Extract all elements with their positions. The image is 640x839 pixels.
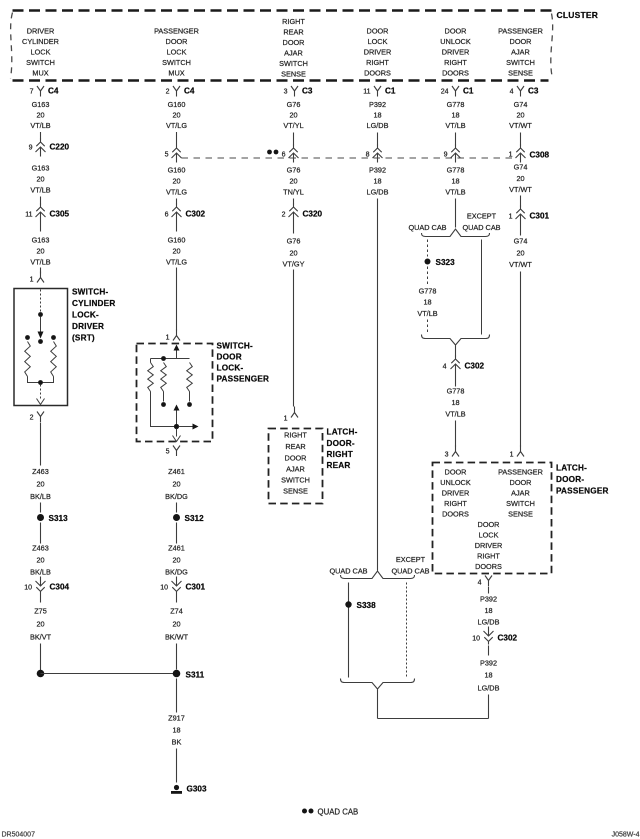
svg-text:Z74: Z74 [170, 607, 183, 616]
svg-text:DRIVER: DRIVER [364, 48, 392, 57]
svg-text:VT/LB: VT/LB [30, 186, 50, 195]
svg-text:LOCK: LOCK [31, 48, 51, 57]
svg-text:SWITCH: SWITCH [506, 58, 535, 67]
svg-text:C3: C3 [528, 87, 539, 96]
svg-text:DOORS: DOORS [364, 69, 391, 78]
svg-text:G778: G778 [447, 166, 465, 175]
svg-text:DOOR: DOOR [217, 353, 242, 362]
svg-text:BK/DG: BK/DG [165, 492, 188, 501]
svg-text:G778: G778 [447, 387, 465, 396]
svg-text:VT/WT: VT/WT [509, 260, 532, 269]
svg-text:G778: G778 [419, 287, 437, 296]
svg-text:LATCH-: LATCH- [556, 464, 587, 473]
svg-text:QUAD CAB: QUAD CAB [318, 808, 359, 817]
svg-text:VT/GY: VT/GY [283, 260, 305, 269]
svg-text:5: 5 [166, 449, 170, 456]
svg-text:VT/LB: VT/LB [445, 188, 465, 197]
svg-text:DOOR: DOOR [510, 37, 532, 46]
svg-text:LG/DB: LG/DB [367, 188, 389, 197]
svg-text:LOCK: LOCK [479, 531, 499, 540]
svg-text:SWITCH: SWITCH [279, 59, 308, 68]
svg-text:18: 18 [373, 111, 381, 120]
svg-text:TN/YL: TN/YL [283, 188, 304, 197]
svg-text:S313: S313 [49, 514, 69, 523]
svg-text:MUX: MUX [168, 69, 184, 78]
svg-text:DOORS: DOORS [475, 562, 502, 571]
svg-text:20: 20 [172, 247, 180, 256]
svg-text:DOOR: DOOR [510, 478, 532, 487]
svg-text:CYLINDER: CYLINDER [72, 299, 115, 308]
svg-text:C308: C308 [530, 151, 550, 160]
svg-text:VT/LB: VT/LB [445, 121, 465, 130]
svg-text:G163: G163 [32, 164, 50, 173]
svg-text:18: 18 [172, 726, 180, 735]
svg-text:LATCH-: LATCH- [327, 428, 358, 437]
svg-text:SWITCH-: SWITCH- [72, 288, 108, 297]
svg-text:18: 18 [451, 111, 459, 120]
svg-text:SWITCH: SWITCH [506, 499, 535, 508]
svg-text:VT/YL: VT/YL [283, 121, 303, 130]
svg-text:G76: G76 [287, 237, 301, 246]
svg-text:20: 20 [516, 174, 524, 183]
svg-text:20: 20 [289, 177, 297, 186]
svg-text:20: 20 [172, 111, 180, 120]
svg-text:RIGHT: RIGHT [366, 58, 389, 67]
svg-text:C4: C4 [184, 87, 195, 96]
svg-text:Z917: Z917 [168, 714, 185, 723]
svg-text:C305: C305 [50, 210, 70, 219]
svg-text:EXCEPT: EXCEPT [467, 212, 497, 221]
svg-text:UNLOCK: UNLOCK [440, 37, 471, 46]
svg-text:G303: G303 [187, 785, 207, 794]
svg-text:QUAD CAB: QUAD CAB [391, 567, 429, 576]
svg-text:DRIVER: DRIVER [442, 489, 470, 498]
svg-text:5: 5 [165, 152, 169, 159]
svg-text:18: 18 [423, 298, 431, 307]
svg-text:RIGHT: RIGHT [477, 552, 500, 561]
svg-text:20: 20 [289, 111, 297, 120]
svg-text:10: 10 [160, 585, 168, 592]
svg-text:S312: S312 [185, 514, 205, 523]
svg-text:1: 1 [509, 152, 513, 159]
svg-text:G778: G778 [447, 100, 465, 109]
svg-text:20: 20 [516, 111, 524, 120]
svg-text:10: 10 [472, 636, 480, 643]
svg-text:20: 20 [36, 480, 44, 489]
svg-text:DOOR-: DOOR- [327, 439, 355, 448]
svg-text:Z75: Z75 [34, 607, 47, 616]
svg-text:1: 1 [30, 277, 34, 284]
svg-text:1: 1 [509, 214, 513, 221]
svg-text:UNLOCK: UNLOCK [440, 478, 471, 487]
svg-text:DOOR: DOOR [166, 37, 188, 46]
svg-text:SENSE: SENSE [281, 70, 306, 79]
svg-text:SENSE: SENSE [508, 510, 533, 519]
svg-text:DOOR-: DOOR- [556, 475, 584, 484]
svg-text:VT/LB: VT/LB [445, 410, 465, 419]
svg-text:18: 18 [484, 671, 492, 680]
svg-text:4: 4 [443, 364, 447, 371]
svg-text:2: 2 [282, 212, 286, 219]
svg-text:10: 10 [24, 585, 32, 592]
svg-text:C304: C304 [50, 583, 70, 592]
svg-text:QUAD CAB: QUAD CAB [408, 223, 446, 232]
svg-text:C4: C4 [48, 87, 59, 96]
svg-text:LOCK-: LOCK- [72, 311, 99, 320]
svg-text:BK/DG: BK/DG [165, 568, 188, 577]
svg-text:4: 4 [510, 89, 514, 96]
svg-text:DOORS: DOORS [442, 69, 469, 78]
svg-text:Z461: Z461 [168, 467, 185, 476]
svg-text:4: 4 [478, 580, 482, 587]
svg-text:DOOR: DOOR [283, 38, 305, 47]
svg-text:2: 2 [166, 89, 170, 96]
svg-text:S338: S338 [357, 601, 377, 610]
svg-text:S323: S323 [436, 258, 456, 267]
svg-text:20: 20 [172, 556, 180, 565]
svg-text:PASSENGER: PASSENGER [498, 27, 543, 36]
svg-text:DOOR: DOOR [367, 27, 389, 36]
svg-text:BK/LB: BK/LB [30, 568, 51, 577]
svg-text:9: 9 [29, 145, 33, 152]
svg-text:18: 18 [373, 177, 381, 186]
svg-text:LG/DB: LG/DB [367, 121, 389, 130]
svg-text:3: 3 [284, 89, 288, 96]
svg-text:C301: C301 [186, 583, 206, 592]
svg-text:RIGHT: RIGHT [444, 499, 467, 508]
svg-text:VT/LB: VT/LB [30, 121, 50, 130]
svg-text:PASSENGER: PASSENGER [498, 468, 543, 477]
svg-text:C3: C3 [302, 87, 313, 96]
svg-text:CYLINDER: CYLINDER [22, 37, 59, 46]
svg-text:SENSE: SENSE [508, 69, 533, 78]
svg-text:P392: P392 [480, 595, 497, 604]
svg-text:DRIVER: DRIVER [475, 541, 503, 550]
svg-text:C1: C1 [463, 87, 474, 96]
svg-text:MUX: MUX [32, 69, 48, 78]
svg-text:SWITCH: SWITCH [26, 58, 55, 67]
svg-text:LG/DB: LG/DB [478, 618, 500, 627]
svg-text:C320: C320 [303, 210, 323, 219]
svg-text:BK/WT: BK/WT [165, 633, 189, 642]
svg-text:C302: C302 [498, 634, 518, 643]
svg-text:C301: C301 [530, 212, 550, 221]
svg-text:RIGHT: RIGHT [282, 17, 305, 26]
svg-text:RIGHT: RIGHT [284, 431, 307, 440]
svg-text:PASSENGER: PASSENGER [217, 375, 270, 384]
svg-text:REAR: REAR [285, 442, 305, 451]
svg-text:SWITCH-: SWITCH- [217, 342, 253, 351]
svg-text:AJAR: AJAR [511, 489, 530, 498]
svg-text:PASSENGER: PASSENGER [556, 487, 609, 496]
svg-text:P392: P392 [480, 659, 497, 668]
svg-text:20: 20 [172, 177, 180, 186]
svg-text:VT/LB: VT/LB [30, 258, 50, 267]
svg-text:LOCK: LOCK [368, 37, 388, 46]
svg-text:C302: C302 [465, 362, 485, 371]
svg-text:Z463: Z463 [32, 544, 49, 553]
svg-text:BK: BK [172, 738, 182, 747]
svg-text:G163: G163 [32, 100, 50, 109]
svg-text:G76: G76 [287, 166, 301, 175]
svg-text:QUAD CAB: QUAD CAB [329, 567, 367, 576]
svg-text:24: 24 [441, 89, 449, 96]
svg-text:LOCK-: LOCK- [217, 364, 244, 373]
svg-text:11: 11 [25, 212, 32, 219]
svg-text:PASSENGER: PASSENGER [154, 27, 199, 36]
svg-text:G160: G160 [168, 166, 186, 175]
svg-text:SWITCH: SWITCH [281, 476, 310, 485]
svg-text:RIGHT: RIGHT [327, 450, 353, 459]
svg-text:20: 20 [289, 249, 297, 258]
svg-text:20: 20 [36, 247, 44, 256]
svg-text:20: 20 [172, 480, 180, 489]
svg-text:Z463: Z463 [32, 467, 49, 476]
svg-text:G160: G160 [168, 236, 186, 245]
svg-text:6: 6 [282, 152, 286, 159]
svg-text:VT/LG: VT/LG [166, 258, 187, 267]
svg-text:BK/LB: BK/LB [30, 492, 51, 501]
svg-text:P392: P392 [369, 100, 386, 109]
svg-text:DOOR: DOOR [478, 520, 500, 529]
svg-text:CLUSTER: CLUSTER [557, 10, 599, 20]
svg-text:J058W-4: J058W-4 [612, 832, 640, 839]
svg-text:1: 1 [510, 452, 514, 459]
svg-text:DOOR: DOOR [445, 468, 467, 477]
svg-text:AJAR: AJAR [286, 465, 305, 474]
svg-text:11: 11 [363, 89, 370, 96]
svg-text:20: 20 [516, 249, 524, 258]
svg-text:1: 1 [284, 416, 288, 423]
svg-text:BK/VT: BK/VT [30, 633, 52, 642]
svg-text:AJAR: AJAR [284, 49, 303, 58]
svg-text:S311: S311 [186, 671, 205, 680]
svg-text:VT/LG: VT/LG [166, 188, 187, 197]
svg-text:C1: C1 [385, 87, 396, 96]
svg-text:1: 1 [166, 335, 170, 342]
svg-text:DR504007: DR504007 [2, 832, 36, 839]
svg-text:20: 20 [172, 620, 180, 629]
svg-text:DOOR: DOOR [285, 454, 307, 463]
svg-text:REAR: REAR [327, 461, 351, 470]
svg-text:VT/LB: VT/LB [417, 309, 437, 318]
svg-text:(SRT): (SRT) [72, 334, 95, 343]
svg-text:DOOR: DOOR [445, 27, 467, 36]
svg-text:20: 20 [36, 111, 44, 120]
svg-text:18: 18 [451, 398, 459, 407]
svg-text:AJAR: AJAR [511, 48, 530, 57]
svg-text:G74: G74 [514, 100, 528, 109]
svg-text:C302: C302 [186, 210, 206, 219]
svg-text:LOCK: LOCK [167, 48, 187, 57]
svg-text:G76: G76 [287, 100, 301, 109]
svg-text:P392: P392 [369, 166, 386, 175]
svg-text:9: 9 [444, 152, 448, 159]
svg-text:LG/DB: LG/DB [478, 684, 500, 693]
svg-text:6: 6 [165, 212, 169, 219]
svg-text:DRIVER: DRIVER [27, 27, 55, 36]
svg-text:20: 20 [36, 556, 44, 565]
svg-text:RIGHT: RIGHT [444, 58, 467, 67]
svg-text:7: 7 [30, 89, 34, 96]
svg-text:VT/WT: VT/WT [509, 121, 532, 130]
svg-text:G74: G74 [514, 163, 528, 172]
svg-text:DOORS: DOORS [442, 510, 469, 519]
svg-text:QUAD CAB: QUAD CAB [462, 223, 500, 232]
svg-text:G74: G74 [514, 237, 528, 246]
svg-text:3: 3 [445, 452, 449, 459]
svg-text:C220: C220 [50, 143, 70, 152]
svg-text:VT/LG: VT/LG [166, 121, 187, 130]
svg-text:8: 8 [366, 152, 370, 159]
svg-text:G160: G160 [168, 100, 186, 109]
svg-text:SWITCH: SWITCH [162, 58, 191, 67]
svg-text:VT/WT: VT/WT [509, 185, 532, 194]
svg-text:Z461: Z461 [168, 544, 185, 553]
svg-text:2: 2 [30, 415, 34, 422]
svg-text:20: 20 [36, 620, 44, 629]
svg-text:DRIVER: DRIVER [72, 322, 104, 331]
svg-text:18: 18 [451, 177, 459, 186]
svg-text:EXCEPT: EXCEPT [396, 555, 426, 564]
svg-text:SENSE: SENSE [283, 487, 308, 496]
svg-text:G163: G163 [32, 236, 50, 245]
svg-text:DRIVER: DRIVER [442, 48, 470, 57]
svg-text:18: 18 [484, 606, 492, 615]
svg-text:REAR: REAR [283, 28, 303, 37]
svg-text:20: 20 [36, 175, 44, 184]
